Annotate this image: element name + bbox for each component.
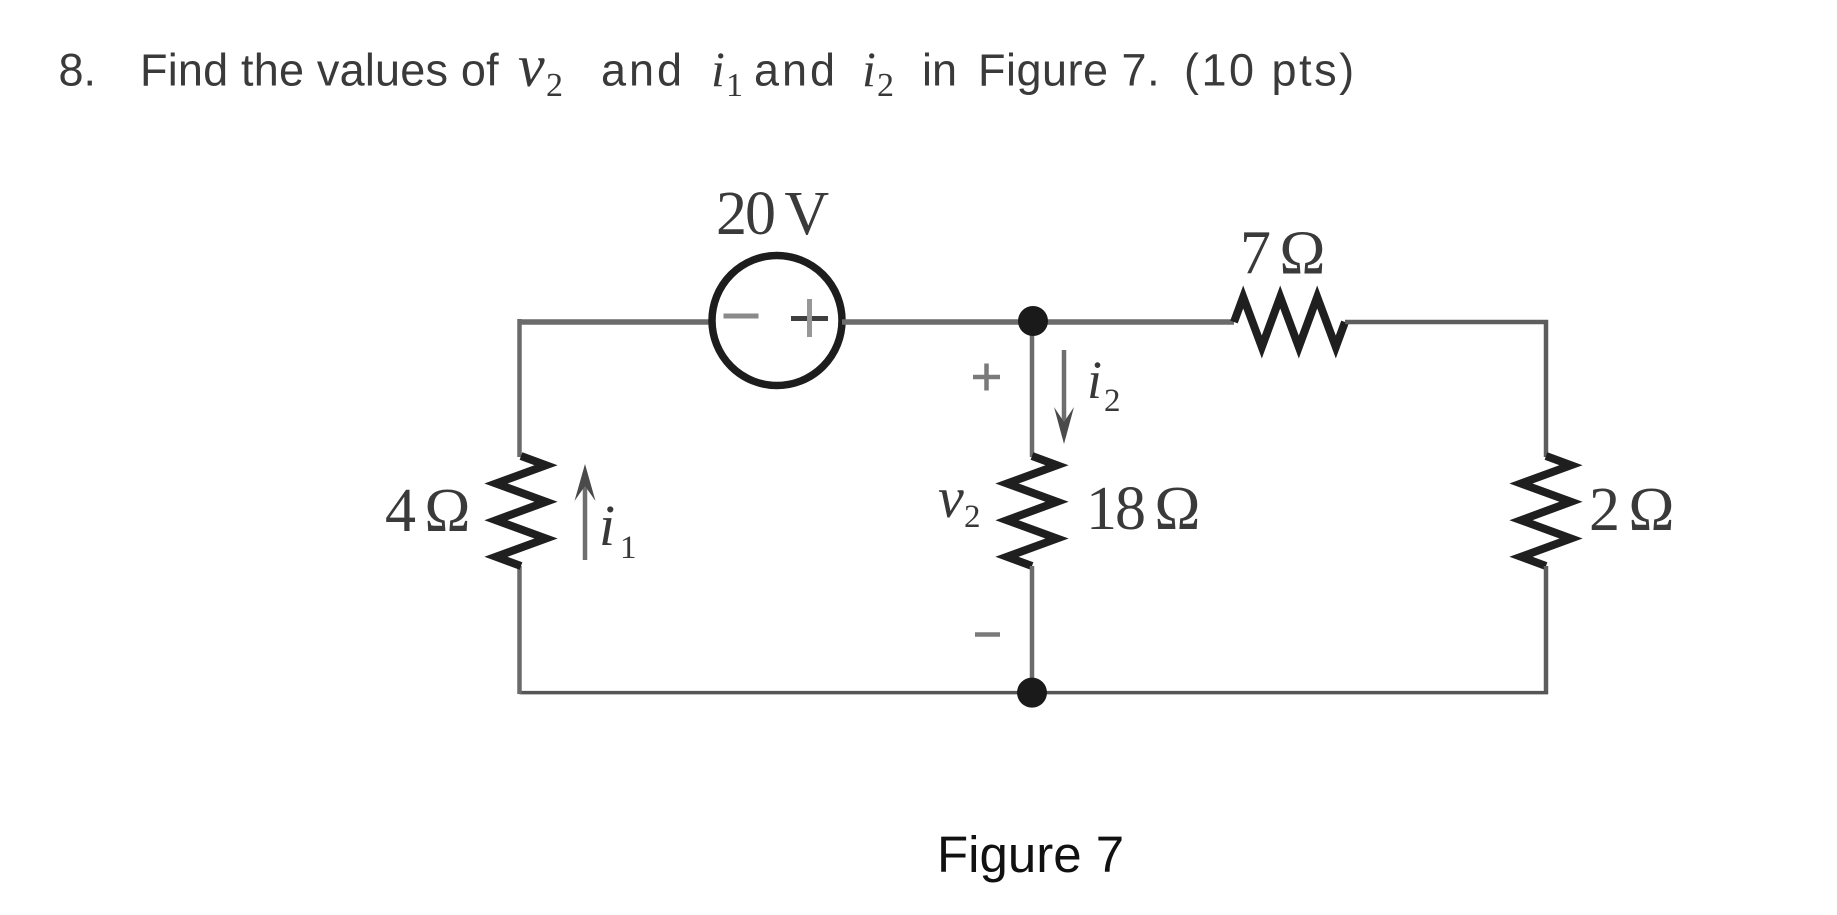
- svg-text:8.: 8.: [59, 45, 97, 96]
- resistor R 4 ohm (left vertical zigzag): [496, 456, 546, 566]
- wire: left side upper vertical: [517, 319, 522, 457]
- svg-text:(10 pts): (10 pts): [1184, 45, 1357, 96]
- svg-text:18 Ω: 18 Ω: [1086, 475, 1199, 543]
- svg-text:in: in: [922, 45, 957, 96]
- svg-text:and: and: [601, 45, 685, 96]
- svg-text:4 Ω: 4 Ω: [385, 477, 469, 545]
- svg-text:2: 2: [877, 67, 894, 104]
- wire: right side lower vertical: [1544, 566, 1549, 694]
- svg-text:i: i: [1087, 350, 1102, 410]
- svg-text:2: 2: [546, 67, 563, 104]
- svg-text:1: 1: [620, 530, 637, 566]
- minus sign of v2: [975, 632, 1000, 637]
- svg-text:7 Ω: 7 Ω: [1240, 220, 1324, 288]
- svg-text:v: v: [938, 465, 964, 530]
- svg-text:v: v: [518, 33, 545, 99]
- minus sign inside source: [724, 314, 759, 319]
- voltage source 20 V: [712, 256, 842, 386]
- svg-text:2: 2: [964, 499, 981, 535]
- current arrow i2 (downward): [1062, 350, 1067, 436]
- node A (top junction dot): [1018, 306, 1048, 336]
- resistor R 18 ohm (middle vertical zigzag): [1007, 456, 1057, 566]
- current arrow i1 (upward): [583, 472, 588, 560]
- resistor R 2 ohm (right vertical zigzag): [1521, 456, 1571, 566]
- wire: left side lower vertical: [517, 566, 522, 694]
- svg-text:2 Ω: 2 Ω: [1589, 476, 1673, 544]
- svg-text:Figure 7: Figure 7: [937, 826, 1124, 883]
- plus sign inside source: [791, 316, 828, 321]
- wire: top segment from node A to 7-ohm resistor: [1032, 319, 1234, 325]
- wire: middle branch lower (18-ohm to node B): [1030, 566, 1035, 692]
- wire: middle branch upper (node A to 18-ohm): [1030, 321, 1035, 457]
- wire: bottom segment from node B to left corner: [520, 691, 1033, 695]
- svg-text:Figure 7.: Figure 7.: [978, 45, 1160, 96]
- title text: problem statement: [59, 33, 1357, 104]
- svg-text:1: 1: [726, 67, 743, 104]
- wire: top segment from source to node A: [842, 319, 1032, 325]
- wire: bottom segment from right corner to node B: [1032, 691, 1548, 695]
- plus sign of v2: [973, 364, 1000, 391]
- svg-text:i: i: [599, 493, 615, 558]
- svg-text:Find the values of: Find the values of: [140, 45, 499, 96]
- node B (bottom junction dot): [1017, 678, 1047, 708]
- resistor R 7 ohm (horizontal zigzag): [1234, 297, 1345, 347]
- svg-text:i: i: [711, 41, 725, 97]
- svg-text:2: 2: [1104, 383, 1121, 419]
- svg-text:and: and: [754, 45, 838, 96]
- svg-text:i: i: [862, 41, 876, 97]
- wire: top-right horizontal and right side upper vertical: [1345, 322, 1546, 457]
- wire: top-left horizontal segment (corner to source): [520, 319, 713, 325]
- svg-text:20 V: 20 V: [716, 180, 829, 248]
